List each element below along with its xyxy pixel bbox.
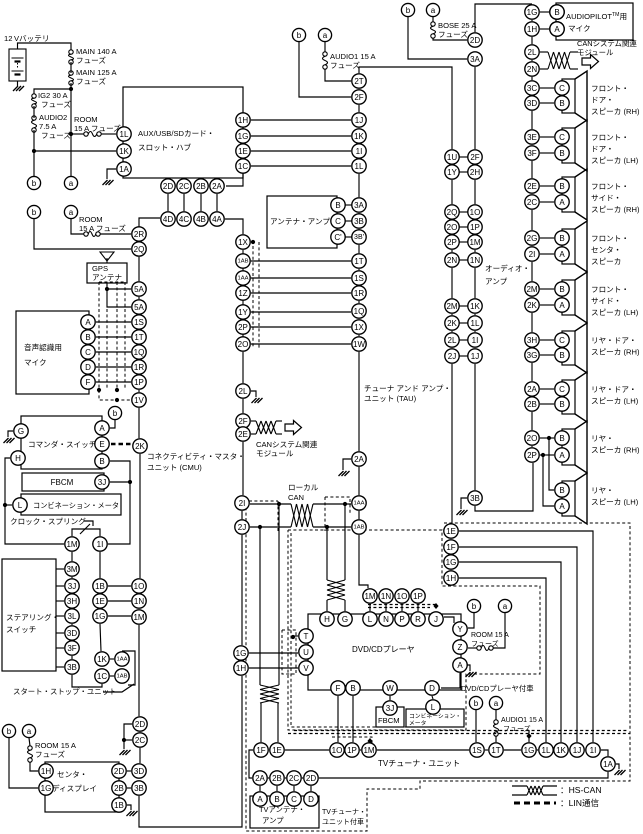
wire 1R-1Q bbox=[358, 301, 360, 303]
pin 1L bbox=[539, 743, 553, 757]
wire 1A to ground bbox=[107, 169, 116, 179]
svg-text:1X: 1X bbox=[238, 238, 248, 247]
shield dashed to 1V bbox=[99, 390, 131, 400]
wire branch to IG2 fuse bbox=[34, 89, 71, 94]
pin 3D bbox=[132, 764, 146, 778]
svg-text:フューズ: フューズ bbox=[76, 76, 106, 86]
wire fuse to 1H bbox=[30, 762, 38, 771]
svg-text:1L: 1L bbox=[542, 746, 551, 755]
pin 2D bbox=[112, 764, 126, 778]
svg-text:CANシステム関連: CANシステム関連 bbox=[256, 439, 318, 449]
pin 2C bbox=[525, 195, 539, 209]
wire 2R-2Q bbox=[138, 241, 140, 243]
wire J to Y elbow bbox=[444, 617, 454, 623]
svg-text:N: N bbox=[383, 615, 389, 624]
wire hub 1G to 1K bbox=[251, 135, 351, 137]
svg-text:1E: 1E bbox=[446, 527, 456, 536]
wire TV ant pair x294 bbox=[293, 786, 295, 791]
svg-text:1AA: 1AA bbox=[238, 276, 249, 282]
twisted pair to DVD player bbox=[327, 580, 345, 600]
svg-text:リヤ・ドア・: リヤ・ドア・ bbox=[591, 336, 637, 345]
svg-text:2O: 2O bbox=[238, 340, 249, 349]
wire b to 2Q bbox=[34, 219, 131, 249]
svg-text:TVチューナ・ユニット: TVチューナ・ユニット bbox=[378, 759, 460, 768]
pin 1R bbox=[352, 286, 366, 300]
svg-text:1G: 1G bbox=[527, 8, 538, 17]
wire amp to speaker pin bbox=[540, 403, 554, 405]
svg-text:1AB: 1AB bbox=[238, 259, 249, 265]
svg-text:コマンダ・スイッチ: コマンダ・スイッチ bbox=[28, 439, 96, 449]
svg-text:モジュール: モジュール bbox=[256, 449, 294, 458]
wire fuse to 2T bbox=[325, 69, 351, 81]
pin D bbox=[304, 792, 318, 806]
pin 1AA bbox=[236, 271, 250, 285]
legend LIN symbol bbox=[514, 802, 556, 805]
svg-text:A: A bbox=[457, 661, 463, 670]
pin 1V bbox=[132, 393, 146, 407]
svg-text:BOSE 25 A: BOSE 25 A bbox=[438, 21, 477, 30]
wire CAN branch to G bbox=[344, 504, 346, 580]
svg-text:1P: 1P bbox=[134, 378, 144, 387]
wire amp chain bbox=[531, 347, 533, 348]
speaker front door RH bbox=[562, 71, 587, 121]
wire pair 1Y-2H bbox=[460, 171, 468, 173]
svg-text:DVD/CDプレーヤ付車: DVD/CDプレーヤ付車 bbox=[461, 684, 534, 693]
wire T stub bbox=[293, 635, 298, 637]
svg-text:1J: 1J bbox=[471, 352, 479, 361]
pin 2B bbox=[112, 781, 126, 795]
svg-text:B: B bbox=[559, 234, 564, 243]
wire 2F to twist bbox=[251, 420, 256, 422]
ground hub 1A bbox=[103, 180, 114, 185]
svg-text:G: G bbox=[342, 615, 348, 624]
wire 1row to DVD pin x386 bbox=[385, 604, 387, 611]
pin 1H bbox=[525, 22, 539, 36]
wire a to fuse bbox=[495, 710, 497, 720]
pin 1C bbox=[236, 159, 250, 173]
svg-text:1G: 1G bbox=[238, 132, 249, 141]
legend twisted pair bbox=[527, 786, 543, 795]
wire 2Q to 5A bbox=[138, 257, 140, 281]
svg-text:a: a bbox=[431, 6, 436, 15]
pin b bbox=[469, 696, 482, 709]
pin 1U bbox=[445, 150, 459, 164]
shield dashed top (mic) bbox=[99, 281, 125, 283]
wire steering chain bbox=[71, 624, 73, 625]
svg-text:D: D bbox=[85, 363, 91, 372]
svg-text:2Q: 2Q bbox=[134, 245, 145, 254]
pin 1G bbox=[525, 5, 539, 19]
svg-text:L: L bbox=[431, 703, 436, 712]
wire down to connector a bbox=[70, 134, 72, 176]
pin 2A bbox=[352, 452, 366, 466]
wire 2P to 1X bbox=[251, 326, 351, 328]
wire 1A to ground bbox=[616, 764, 619, 769]
pin 2O bbox=[445, 220, 459, 234]
pin 1AA bbox=[352, 496, 366, 510]
speaker front center label bbox=[591, 234, 629, 266]
speaker front door RH label bbox=[591, 84, 640, 116]
svg-text:A: A bbox=[559, 502, 565, 511]
wire twist end lower bbox=[276, 433, 282, 435]
svg-text:1T: 1T bbox=[354, 257, 363, 266]
pin C bbox=[331, 214, 345, 228]
wire a to ROOM fuse bbox=[71, 219, 84, 234]
svg-text:1B: 1B bbox=[95, 582, 105, 591]
wire 2B-3B bbox=[127, 787, 131, 789]
pin 3H bbox=[65, 594, 79, 608]
svg-text:スピーカ (LH): スピーカ (LH) bbox=[591, 397, 639, 406]
wire 3J to bus bbox=[110, 481, 130, 483]
svg-text:5A: 5A bbox=[134, 303, 144, 312]
svg-text:1Y: 1Y bbox=[238, 308, 248, 317]
start-stop label leader bbox=[103, 684, 134, 692]
wire 1B-1E bbox=[99, 593, 101, 594]
pin 2P bbox=[525, 448, 539, 462]
wire amp chain bbox=[531, 95, 533, 96]
pin a bbox=[64, 176, 77, 189]
pin 4A bbox=[210, 212, 224, 226]
svg-text:スピーカ (RH): スピーカ (RH) bbox=[591, 348, 640, 357]
pin 4D bbox=[161, 212, 175, 226]
speaker rear LH bbox=[562, 473, 587, 524]
svg-text:1K: 1K bbox=[354, 132, 364, 141]
svg-text:4D: 4D bbox=[163, 215, 173, 224]
svg-text:4A: 4A bbox=[212, 215, 222, 224]
TV antenna amplifier unit bbox=[250, 796, 319, 828]
svg-text:A: A bbox=[99, 424, 105, 433]
svg-text:3L: 3L bbox=[68, 612, 77, 621]
wire 1AA-1AB bbox=[358, 511, 360, 519]
pin 1Q bbox=[132, 345, 146, 359]
svg-text:1K: 1K bbox=[97, 655, 107, 664]
pin a bbox=[22, 724, 35, 737]
pin 1X bbox=[236, 235, 250, 249]
pin 3D bbox=[525, 96, 539, 110]
pin 2B bbox=[270, 771, 284, 785]
wire 3B bottom bus to 1H bbox=[139, 676, 242, 827]
battery B1 bbox=[9, 49, 26, 81]
pin 3M bbox=[65, 562, 79, 576]
wire TAU mid chain bbox=[451, 331, 453, 332]
pin A bbox=[555, 195, 569, 209]
pin 1G bbox=[93, 609, 107, 623]
svg-text:B: B bbox=[274, 795, 279, 804]
wire 1E-1F bbox=[450, 538, 452, 540]
pin a bbox=[489, 696, 502, 709]
svg-text:1AB: 1AB bbox=[117, 674, 128, 680]
wire IG2 to AUDIO2 fuse bbox=[33, 106, 35, 118]
wire 2A-4A bbox=[216, 194, 218, 211]
svg-text:1W: 1W bbox=[353, 340, 365, 349]
pin F bbox=[331, 681, 345, 695]
wire CAN branch to H bbox=[326, 527, 328, 580]
svg-text:C: C bbox=[559, 336, 565, 345]
svg-text:2N: 2N bbox=[447, 256, 457, 265]
wire TAU mid chain bbox=[451, 314, 453, 315]
svg-text:1L: 1L bbox=[471, 319, 480, 328]
svg-text:コネクティビティ・マスタ・: コネクティビティ・マスタ・ bbox=[147, 452, 245, 461]
pin 1G bbox=[234, 646, 248, 660]
wire between MAIN fuses bbox=[70, 62, 72, 73]
pin D bbox=[81, 360, 95, 374]
pin B bbox=[555, 231, 569, 245]
svg-text:2B: 2B bbox=[114, 784, 124, 793]
svg-text:スロット・ハブ: スロット・ハブ bbox=[138, 142, 192, 152]
wire A to ground bbox=[467, 665, 470, 671]
wire 2O to 1W bbox=[251, 343, 351, 345]
pin V bbox=[299, 661, 313, 675]
wire amp chain bbox=[531, 363, 533, 381]
shield dashed v4 (mic) bbox=[124, 282, 126, 388]
pin 1P bbox=[345, 743, 359, 757]
wire TAU mid chain bbox=[451, 250, 453, 252]
wire steering stub y601 bbox=[56, 600, 64, 602]
wire 2J CAN-L bbox=[250, 526, 291, 528]
wire TAU chain bbox=[358, 158, 360, 159]
wire 2J down to 1G bbox=[241, 535, 243, 645]
pin 1N bbox=[379, 589, 393, 603]
svg-text:1B: 1B bbox=[114, 801, 124, 810]
pin J bbox=[429, 612, 443, 626]
pin a bbox=[64, 205, 77, 218]
svg-text:3F: 3F bbox=[67, 644, 76, 653]
svg-text:J: J bbox=[434, 615, 438, 624]
svg-text:1R: 1R bbox=[354, 289, 364, 298]
svg-text:1G: 1G bbox=[524, 746, 535, 755]
pin 2M bbox=[445, 299, 459, 313]
pin 1K bbox=[554, 743, 568, 757]
LIN junction 1M bbox=[367, 738, 372, 744]
pin 1O bbox=[468, 205, 482, 219]
wire 2K down to 1O bbox=[139, 454, 141, 578]
fuse ROOM 15A (hub) bbox=[84, 132, 101, 137]
svg-text:スピーカ (RH): スピーカ (RH) bbox=[591, 446, 640, 455]
wire ROOM fuse to hub 1L bbox=[101, 133, 116, 135]
svg-text:ドア・: ドア・ bbox=[591, 145, 614, 154]
svg-text:FBCM: FBCM bbox=[51, 478, 74, 487]
pin 1G bbox=[236, 129, 250, 143]
pin B bbox=[550, 5, 564, 19]
svg-text:C: C bbox=[559, 385, 565, 394]
wire 1Z to 1R bbox=[251, 292, 351, 294]
wire 1W down to 2A bbox=[358, 352, 360, 451]
speaker rear door RH bbox=[562, 323, 587, 373]
speaker front side RH label bbox=[591, 182, 640, 214]
fuse MAIN 125A bbox=[69, 71, 74, 85]
svg-text:3J: 3J bbox=[98, 478, 106, 487]
svg-text:スピーカ (LH): スピーカ (LH) bbox=[591, 156, 639, 165]
dashed box inner edge (DVD) bbox=[291, 533, 463, 727]
svg-text:2K: 2K bbox=[135, 442, 145, 451]
svg-text:1G: 1G bbox=[446, 558, 457, 567]
svg-text:C: C bbox=[291, 795, 297, 804]
shield dashed local CAN right of box bbox=[277, 501, 279, 531]
fuse ROOM 15A (DVD) bbox=[477, 646, 493, 651]
pin A bbox=[95, 421, 109, 435]
svg-text:2P: 2P bbox=[238, 323, 248, 332]
svg-text:A: A bbox=[257, 795, 263, 804]
wire amp to speaker pin bbox=[540, 354, 554, 356]
svg-text:AUX/USB/SDカード・: AUX/USB/SDカード・ bbox=[138, 129, 214, 138]
wire battery+ to MAIN fuses bbox=[18, 43, 72, 50]
svg-text:2M: 2M bbox=[446, 302, 457, 311]
pin 1A bbox=[117, 162, 131, 176]
junction combo meter L bbox=[3, 503, 7, 507]
wire pair 2M-1K bbox=[460, 305, 468, 307]
svg-text:音声認識用: 音声認識用 bbox=[24, 342, 62, 352]
wire steering stub y667 bbox=[56, 666, 64, 668]
wire amp to mic pin bbox=[540, 28, 549, 30]
pin 1M bbox=[132, 610, 146, 624]
wire down to ROOM fuse tap bbox=[70, 89, 72, 134]
svg-text:1E: 1E bbox=[95, 597, 105, 606]
svg-text:：LIN通信: ：LIN通信 bbox=[560, 797, 600, 808]
pin A bbox=[550, 22, 564, 36]
pin 1B bbox=[112, 798, 126, 812]
svg-text:b: b bbox=[7, 727, 12, 736]
svg-text:1I: 1I bbox=[590, 746, 597, 755]
shield dashed v1 (mic) bbox=[98, 282, 100, 388]
svg-text:3C: 3C bbox=[527, 84, 537, 93]
pin 1AB bbox=[352, 520, 366, 534]
pin F bbox=[81, 375, 95, 389]
svg-text:b: b bbox=[297, 31, 302, 40]
speaker rear LH label bbox=[591, 486, 639, 507]
wire amp chain bbox=[531, 313, 533, 332]
svg-text:R: R bbox=[415, 615, 421, 624]
svg-text:TVアンテナ・: TVアンテナ・ bbox=[259, 805, 305, 814]
wire amp chain bbox=[531, 20, 533, 21]
svg-text:1I: 1I bbox=[356, 147, 363, 156]
wire b to Y bbox=[468, 613, 474, 628]
wire 1B to ground bbox=[127, 805, 131, 810]
svg-text:1U: 1U bbox=[447, 153, 457, 162]
speaker rear door LH label bbox=[591, 385, 639, 406]
wire hub 1C to 1L bbox=[251, 165, 351, 167]
svg-text:2B: 2B bbox=[272, 774, 282, 783]
pin 1S bbox=[352, 271, 366, 285]
arrow: CAN system module (amp) bbox=[582, 55, 599, 69]
wire 2P to rear spk A bbox=[540, 454, 554, 456]
svg-text:3H: 3H bbox=[527, 336, 537, 345]
svg-text:1M: 1M bbox=[469, 238, 480, 247]
pin 2C bbox=[287, 771, 301, 785]
wire 1O-1P bbox=[344, 749, 345, 751]
pin 1O bbox=[330, 743, 344, 757]
legend HS-CAN symbol bbox=[512, 786, 557, 795]
wire 2L to 2F bbox=[242, 399, 244, 413]
wire amp to speaker pin bbox=[540, 152, 554, 154]
wire 2E to twist bbox=[251, 433, 256, 435]
svg-text:C: C bbox=[335, 217, 341, 226]
svg-text:a: a bbox=[494, 699, 499, 708]
svg-text:CAN: CAN bbox=[288, 493, 304, 502]
pin Y bbox=[453, 622, 467, 636]
wire steering chain bbox=[71, 593, 73, 594]
wire B to 1P bbox=[352, 696, 354, 742]
svg-text:1L: 1L bbox=[355, 162, 364, 171]
wire steering stub y616 bbox=[56, 615, 64, 617]
wire steering 3B to 1C bbox=[72, 675, 102, 687]
wire TAU mid chain bbox=[451, 180, 453, 204]
pin 2B bbox=[194, 179, 208, 193]
wire 1AB to 1T bbox=[251, 260, 351, 262]
wire amp chain bbox=[531, 446, 533, 447]
svg-text:B: B bbox=[559, 182, 564, 191]
twisted pair to TV tuner bbox=[260, 685, 279, 703]
svg-text:コンビネーション・メータ: コンビネーション・メータ bbox=[33, 501, 119, 510]
pin 2N bbox=[445, 253, 459, 267]
wire amp chain bbox=[531, 296, 533, 298]
wire 1L-1K bbox=[553, 749, 554, 751]
wire 3B' to 1T bbox=[358, 245, 360, 253]
svg-text:2F: 2F bbox=[354, 93, 363, 102]
pin 3J bbox=[383, 701, 397, 715]
wire 1E to tuner 1I bbox=[459, 531, 593, 742]
pin C' bbox=[331, 230, 345, 244]
pin 1B bbox=[93, 579, 107, 593]
svg-text:フューズ: フューズ bbox=[503, 724, 531, 733]
pin 1J bbox=[352, 113, 366, 127]
wire 1E-1G bbox=[99, 608, 101, 609]
svg-text:1N: 1N bbox=[134, 597, 144, 606]
svg-text:B: B bbox=[99, 457, 104, 466]
svg-text:b: b bbox=[472, 602, 477, 611]
voice recognition microphone unit bbox=[16, 311, 89, 394]
svg-text:2O: 2O bbox=[527, 434, 538, 443]
svg-text:1H: 1H bbox=[238, 116, 248, 125]
wire 1K-1AA bbox=[110, 658, 114, 660]
wire amp chain bbox=[531, 77, 533, 80]
svg-text:b: b bbox=[406, 6, 411, 15]
wire amp chain bbox=[531, 111, 533, 129]
svg-text:3A: 3A bbox=[354, 201, 364, 210]
svg-text:2L: 2L bbox=[239, 387, 248, 396]
wire antenna amp pair y205 bbox=[346, 204, 352, 206]
svg-text:1M: 1M bbox=[133, 613, 144, 622]
wire 2R up to 4D bbox=[139, 218, 160, 227]
wire twist to 1E bbox=[277, 703, 279, 742]
pin b bbox=[401, 3, 414, 16]
wire twist to 1F bbox=[260, 703, 262, 742]
LIN dashed bus upper bbox=[294, 730, 627, 732]
junction mic shield 1 bbox=[97, 388, 101, 392]
AUX/USB/SD card slot hub unit bbox=[123, 87, 243, 178]
pin 3B bbox=[352, 214, 366, 228]
svg-text:1H: 1H bbox=[41, 767, 51, 776]
pin b bbox=[2, 724, 15, 737]
svg-text:U: U bbox=[303, 648, 309, 657]
wire TAU mid chain bbox=[451, 268, 453, 298]
pin 3C bbox=[525, 81, 539, 95]
svg-text:1A: 1A bbox=[603, 760, 613, 769]
svg-text:1S: 1S bbox=[134, 318, 144, 327]
pin a bbox=[498, 599, 511, 612]
svg-text:2Q: 2Q bbox=[447, 208, 458, 217]
wire 2C to 3D bbox=[139, 748, 141, 763]
svg-text:3A: 3A bbox=[470, 55, 480, 64]
junction FBCM 3J bbox=[128, 480, 132, 484]
svg-text:B: B bbox=[559, 434, 564, 443]
wire CAN-L to 1AB bbox=[313, 526, 351, 528]
steering switch unit bbox=[2, 559, 56, 671]
svg-text:C: C bbox=[85, 348, 91, 357]
svg-text:3E: 3E bbox=[527, 133, 537, 142]
wire amp to speaker pin bbox=[540, 87, 554, 89]
wire pair 2J-1J bbox=[460, 355, 468, 357]
junction ROOM fuse tap bbox=[69, 132, 73, 136]
